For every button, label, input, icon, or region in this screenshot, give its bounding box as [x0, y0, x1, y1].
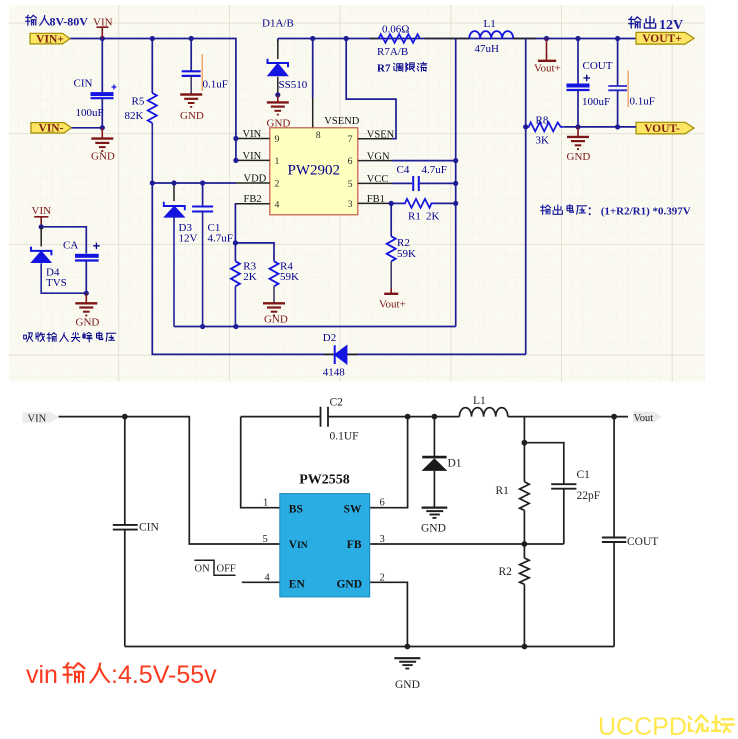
- svg-text:D1A/B: D1A/B: [262, 18, 294, 30]
- svg-text:2: 2: [275, 179, 280, 190]
- wire bottom rail 1: [174, 324, 456, 329]
- svg-text:Vout: Vout: [634, 413, 654, 424]
- svg-text:12V: 12V: [179, 233, 198, 245]
- svg-text:VIN: VIN: [243, 129, 262, 140]
- svg-text:TVS: TVS: [46, 277, 67, 289]
- svg-text:VCC: VCC: [367, 174, 389, 185]
- svg-text:GND: GND: [76, 317, 100, 329]
- svg-text:4.7uF: 4.7uF: [208, 233, 233, 245]
- resistor R2 59K: [387, 203, 416, 288]
- net tag VIN (bottom-left): [23, 412, 59, 424]
- svg-text:PW2558: PW2558: [299, 473, 350, 488]
- ground below 0.1uF: [180, 95, 202, 107]
- wire EN: [242, 581, 280, 583]
- svg-text:R2: R2: [499, 566, 513, 578]
- svg-text:L1: L1: [473, 395, 486, 407]
- resistor R1 (bottom): [496, 417, 530, 544]
- svg-text:4: 4: [265, 572, 271, 583]
- pin 7 VSEN: [348, 129, 395, 145]
- svg-text:VDD: VDD: [244, 174, 267, 185]
- capacitor 0.1uF (input): [182, 39, 228, 95]
- svg-text:BS: BS: [289, 503, 303, 515]
- wire VIN input: [59, 414, 280, 544]
- svg-text:0.06Ω: 0.06Ω: [382, 24, 409, 36]
- svg-text:CA: CA: [63, 240, 78, 252]
- svg-text:GND: GND: [395, 679, 420, 691]
- node junction dots on VIN rail: [100, 36, 194, 41]
- svg-text:L1: L1: [484, 18, 496, 30]
- port VIN-: [31, 123, 72, 135]
- diode D2 4148: [323, 332, 358, 379]
- svg-text:VIN: VIN: [32, 205, 52, 217]
- svg-text:VGN: VGN: [367, 151, 390, 162]
- svg-text:CIN: CIN: [74, 78, 93, 90]
- ground below COUT node: [567, 127, 589, 149]
- power port VIN (TVS section): [32, 205, 52, 227]
- TOPSCHEMATIC: [30, 17, 694, 379]
- orange marker line (output cap): [627, 71, 629, 107]
- capacitor CIN (polarized): [74, 39, 117, 128]
- wire to L1: [408, 414, 460, 420]
- svg-text:COUT: COUT: [627, 536, 658, 548]
- pin 6 VGN: [348, 151, 459, 167]
- wire right sense vertical: [455, 39, 457, 327]
- wire GND pin to rail: [370, 582, 408, 646]
- svg-text:9: 9: [275, 134, 280, 145]
- label R7 tiao xian liu: [377, 62, 427, 74]
- svg-text:UCCPD: UCCPD: [598, 713, 687, 739]
- svg-text:4.7uF: 4.7uF: [422, 164, 447, 176]
- resistor R5 82K: [125, 39, 157, 184]
- svg-text:5: 5: [348, 179, 353, 190]
- svg-text:8: 8: [316, 130, 321, 141]
- svg-text:GND: GND: [91, 151, 115, 163]
- resistor R4 59K: [235, 243, 299, 303]
- svg-text:VSEN: VSEN: [367, 129, 395, 140]
- svg-text:0.1uF: 0.1uF: [630, 96, 655, 108]
- svg-text:3: 3: [380, 534, 385, 545]
- ON/OFF enable symbol: [194, 560, 236, 575]
- capacitor COUT (bottom): [602, 417, 658, 647]
- svg-text:100uF: 100uF: [76, 107, 104, 119]
- svg-text:FB1: FB1: [367, 194, 385, 205]
- wire FB2 left vertical and bottom rail 3: [152, 39, 525, 355]
- svg-text:4: 4: [275, 199, 280, 210]
- ground below CIN: [91, 128, 113, 151]
- resistor R7A/B 0.06ohm: [370, 24, 448, 59]
- svg-text:VIN-: VIN-: [39, 123, 64, 135]
- resistor R2 (bottom): [499, 544, 530, 647]
- note vin input red text: [26, 661, 217, 689]
- svg-text:VIN: VIN: [243, 151, 262, 162]
- svg-text:12V: 12V: [659, 18, 683, 33]
- svg-text:GND: GND: [567, 151, 591, 163]
- svg-text:vin: vin: [26, 661, 58, 689]
- power port Vout+ (top): [534, 39, 561, 75]
- svg-text:1: 1: [263, 498, 268, 509]
- svg-text:6: 6: [348, 156, 353, 167]
- resistor R3 2K: [231, 240, 257, 326]
- ground below R4: [263, 303, 285, 315]
- svg-text:PW2902: PW2902: [288, 163, 341, 179]
- svg-text:VIN: VIN: [28, 414, 47, 425]
- svg-text:VOUT+: VOUT+: [642, 33, 682, 45]
- svg-text:8V-80V: 8V-80V: [50, 15, 89, 29]
- wire D1A/B to L1 rail: [278, 39, 636, 43]
- svg-text:GND: GND: [264, 314, 288, 326]
- svg-text:GND: GND: [180, 110, 204, 122]
- port VOUT-: [636, 122, 694, 135]
- pin 1 VIN: [233, 151, 279, 167]
- pin 5 VCC and capacitor C4 4.7uF: [348, 164, 459, 191]
- svg-text:OFF: OFF: [217, 564, 236, 575]
- svg-text:R7A/B: R7A/B: [377, 46, 408, 58]
- svg-text:ON: ON: [195, 564, 211, 575]
- svg-text:59K: 59K: [397, 248, 416, 260]
- svg-text:6: 6: [380, 498, 385, 509]
- svg-text:VIN+: VIN+: [36, 33, 64, 45]
- svg-text:Vout+: Vout+: [379, 299, 406, 311]
- svg-text:FB: FB: [347, 539, 362, 551]
- pin 2 VDD: [150, 174, 280, 190]
- wire TVS node: [39, 224, 87, 253]
- svg-text:GND: GND: [421, 523, 446, 535]
- wire L1 to Vout: [508, 414, 628, 420]
- diode D1 (bottom): [422, 417, 462, 508]
- wire VSEND (pin 8): [310, 36, 315, 128]
- diode D1A/B SS510: [262, 18, 308, 98]
- svg-text:5: 5: [263, 534, 268, 545]
- IC U1 PW2902: [270, 128, 358, 215]
- wire FB row: [370, 541, 564, 547]
- svg-text:R7: R7: [377, 63, 391, 75]
- ground below D1A/B: [267, 95, 289, 115]
- svg-text:VIN: VIN: [93, 17, 113, 29]
- power port VIN (top): [97, 27, 109, 38]
- svg-text:R1: R1: [496, 485, 510, 497]
- power port VIN label text: [93, 17, 113, 29]
- svg-text:： (1+R2/R1) *0.397V: ： (1+R2/R1) *0.397V: [587, 206, 691, 218]
- power port Vout+ (below R2): [379, 289, 406, 311]
- svg-text:D1: D1: [448, 458, 462, 470]
- BOTTOMSCHEMATIC: [23, 395, 662, 691]
- svg-text:D2: D2: [323, 332, 336, 344]
- capacitor 0.1uF (output): [608, 39, 655, 127]
- capacitor CA (polarized): [63, 240, 100, 296]
- watermark UCCPD forum: [598, 713, 734, 739]
- svg-text:100uF: 100uF: [582, 96, 610, 108]
- svg-text:4148: 4148: [323, 367, 346, 379]
- header output 12V: [629, 17, 683, 33]
- wire BS loop: [241, 417, 280, 508]
- svg-text:C1: C1: [577, 469, 591, 481]
- diode D4 TVS: [31, 227, 86, 293]
- svg-text:R5: R5: [132, 96, 145, 108]
- svg-text:FB2: FB2: [244, 194, 262, 205]
- svg-text:1: 1: [275, 156, 280, 167]
- svg-text:EN: EN: [289, 578, 306, 590]
- svg-text:C2: C2: [330, 397, 344, 409]
- svg-text:SS510: SS510: [279, 79, 308, 91]
- capacitor CIN (bottom): [113, 417, 160, 647]
- wire VSEN loop: [344, 36, 396, 139]
- svg-text:0.1UF: 0.1UF: [330, 431, 359, 443]
- svg-text:COUT: COUT: [583, 60, 613, 72]
- svg-text:59K: 59K: [280, 271, 299, 283]
- svg-text:R1: R1: [408, 211, 421, 223]
- wire SW to C2 node: [370, 414, 411, 508]
- port VIN+: [30, 33, 70, 45]
- svg-text:7: 7: [348, 134, 353, 145]
- pin 9 VIN: [233, 129, 279, 145]
- svg-text:3K: 3K: [536, 135, 550, 147]
- svg-text:22pF: 22pF: [577, 490, 601, 502]
- svg-text:47uH: 47uH: [475, 43, 500, 55]
- orange marker line (input cap): [201, 54, 203, 91]
- svg-text:3: 3: [348, 199, 353, 210]
- svg-text:C4: C4: [397, 164, 410, 176]
- capacitor COUT 100uF: [567, 39, 613, 127]
- net tag Vout: [633, 412, 662, 425]
- svg-text:2: 2: [380, 572, 385, 583]
- node dots output rail: [544, 36, 620, 41]
- svg-text:CIN: CIN: [139, 522, 160, 534]
- pin numbers PW2558: [263, 498, 385, 584]
- note absorb input spike voltage: [24, 332, 116, 342]
- inductor L1 47uH: [448, 18, 536, 55]
- svg-text:Vout+: Vout+: [534, 63, 561, 75]
- capacitor C1 22pF (bottom): [522, 440, 601, 544]
- inductor L1 (bottom): [459, 395, 507, 417]
- capacitor C1 4.7uF (top schematic): [192, 180, 233, 326]
- svg-text:2K: 2K: [426, 211, 440, 223]
- ground below CA: [75, 293, 97, 315]
- wire bottom ground rail: [125, 644, 614, 650]
- capacitor C2 0.1UF: [241, 397, 408, 443]
- IC U2 PW2558: [280, 473, 370, 597]
- svg-text::4.5V-55v: :4.5V-55v: [111, 661, 217, 689]
- ground below D1: [422, 508, 448, 518]
- svg-text:SW: SW: [344, 503, 362, 515]
- svg-text:VSEND: VSEND: [324, 116, 359, 127]
- svg-text:2K: 2K: [243, 271, 256, 283]
- resistor R8 3K: [523, 115, 636, 147]
- svg-text:GND: GND: [336, 578, 362, 590]
- svg-text:VOUT-: VOUT-: [644, 123, 680, 135]
- svg-text:0.1uF: 0.1uF: [203, 79, 228, 91]
- port VOUT+: [636, 32, 694, 45]
- svg-text:82K: 82K: [125, 110, 144, 122]
- svg-text:R8: R8: [536, 115, 549, 127]
- wire VIN- to CIN: [72, 125, 105, 130]
- note output voltage formula: [541, 205, 691, 218]
- wire VIN+ rail: [70, 39, 236, 161]
- svg-text:VIN: VIN: [289, 539, 308, 551]
- pin 8 number and VSEND label: [316, 116, 360, 141]
- pin 3 FB1 and resistor R1 2K: [348, 194, 459, 222]
- ground bottom rail: [394, 658, 420, 668]
- pin 4 FB2: [235, 194, 279, 243]
- header input 8V-80V: [26, 15, 89, 29]
- diode D3 12V (zener): [164, 180, 198, 326]
